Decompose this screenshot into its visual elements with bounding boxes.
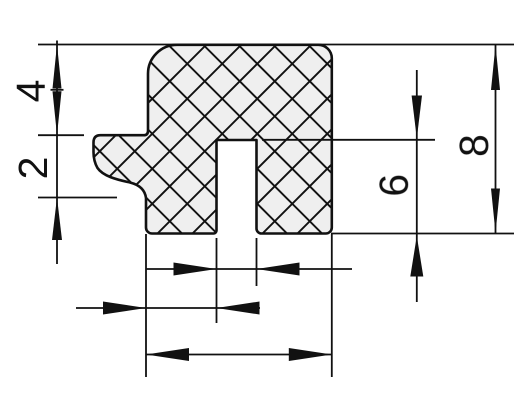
extension line vertical right edge x=331.8 [331,234,333,377]
dimension line notch width (arrows outside) [146,268,352,270]
dimension line left-foot width (arrows outside) [76,307,260,309]
dimension line left column (4 and 2) [56,41,58,265]
arrow up (dim 2 bottom, outside) [52,198,62,241]
profile outline [94,45,332,234]
extension line top (y=44.5) [38,44,514,46]
dimension label 8 [451,134,497,157]
dimension label 2 [10,157,56,180]
extension line bottom right (y=233.5) [331,233,514,235]
extension line notch top (6 dim) [262,139,435,141]
crosshatch [0,40,526,240]
dimension label 4 [8,80,54,103]
arrow right (left-foot width left, outside) [103,302,146,315]
svg-text:4: 4 [8,80,54,103]
profile body fill [94,45,332,234]
svg-text:8: 8 [451,134,497,157]
arrow up (dim 6 bottom, outside) [410,236,423,277]
arrow left (notch width right, outside) [257,263,300,276]
arrow down (dim 8 bottom) [491,189,500,234]
extension line lip bottom [38,197,117,199]
svg-text:2: 2 [10,157,56,180]
arrow left (left-foot width right, outside) [217,302,260,315]
svg-text:6: 6 [371,174,417,197]
arrow left (total width left) [146,348,189,361]
extension line vertical notch left x=216.5 [216,238,218,323]
arrow down (dim 4 bottom) [53,91,62,135]
arrow down (dim 6 top, outside) [412,96,422,139]
dimension line total width [146,354,332,356]
dimension line 6 (vertical, arrows outside) [416,70,418,302]
dimension line 8 (vertical) [495,45,497,234]
arrow base tick [51,89,64,91]
dimension label 6 [371,174,417,197]
extension line lip top [38,134,84,136]
extension line vertical notch right x=256.5 [256,238,258,286]
arrow right (notch width left, outside) [174,263,217,276]
extension line vertical left edge x=146 [145,234,147,377]
arrow up (dim 8 top) [491,45,500,90]
arrow right (total width right) [289,348,332,361]
arrow up (dim 4 top) [53,45,62,89]
